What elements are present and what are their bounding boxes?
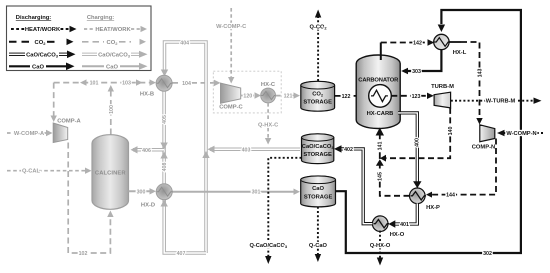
svg-text:144: 144 bbox=[446, 193, 455, 199]
svg-text:101: 101 bbox=[90, 81, 99, 87]
svg-text:CaO/CaCO3: CaO/CaCO3 bbox=[98, 52, 131, 58]
svg-text:HX-O: HX-O bbox=[390, 232, 405, 238]
wire 120 gray CO2 dashed bbox=[241, 92, 261, 99]
wire 143 black CO2 dashed HX-L to COMP-N bbox=[449, 42, 483, 125]
heat exchanger HX-C bbox=[261, 82, 276, 103]
svg-text:401: 401 bbox=[400, 222, 409, 228]
svg-text:CO2: CO2 bbox=[35, 40, 47, 46]
wire 402 black CaO/CaCO3 double HX-O to storage bbox=[334, 145, 372, 224]
svg-text:Charging:: Charging: bbox=[87, 15, 114, 21]
CaO storage tank bbox=[301, 176, 336, 207]
wire 103 gray CO2 dashed into HX-B bbox=[111, 79, 156, 86]
svg-text:301: 301 bbox=[252, 190, 261, 196]
svg-text:145: 145 bbox=[378, 172, 384, 181]
wire Q-CO2 black heat dotted bbox=[310, 10, 328, 82]
svg-text:CALCINER: CALCINER bbox=[95, 170, 126, 176]
wire 405 gray CaO/CaCO3 double HX-B down bbox=[160, 91, 168, 150]
svg-text:STORAGE: STORAGE bbox=[303, 152, 332, 158]
legend charging CaO arrow bbox=[82, 63, 148, 71]
svg-text:Q-CaO: Q-CaO bbox=[309, 243, 328, 249]
wire Q-CaO black heat dotted bbox=[309, 207, 328, 262]
legend charging CO2 arrow bbox=[82, 39, 146, 46]
wire 141 black CO2 dashed into carbonator bottom bbox=[376, 128, 384, 159]
svg-text:102: 102 bbox=[79, 251, 88, 257]
svg-text:HX-C: HX-C bbox=[261, 82, 276, 88]
svg-text:Q-CO2: Q-CO2 bbox=[310, 25, 328, 31]
svg-text:HX-L: HX-L bbox=[453, 50, 467, 56]
CaO/CaCO3 storage tank bbox=[302, 134, 334, 164]
wire 142 black CO2 carbonator top to HX-L bbox=[381, 39, 435, 60]
wire 144 black CO2 dashed COMP-N to HX-P bbox=[426, 139, 496, 199]
wire 140 black CO2 dashed TURB-M down to junction bbox=[380, 108, 454, 162]
heat exchanger HX-D bbox=[141, 184, 173, 209]
svg-text:STORAGE: STORAGE bbox=[304, 195, 333, 201]
svg-text:HX-CARB: HX-CARB bbox=[367, 111, 394, 117]
svg-text:406: 406 bbox=[142, 148, 151, 154]
svg-text:404: 404 bbox=[180, 40, 189, 46]
svg-text:CaO: CaO bbox=[312, 186, 324, 192]
svg-text:103: 103 bbox=[122, 81, 131, 87]
svg-text:Q-HX-C: Q-HX-C bbox=[258, 123, 278, 129]
svg-text:CO2: CO2 bbox=[107, 40, 119, 46]
legend discharging CO2 arrow bbox=[9, 39, 74, 46]
svg-text:143: 143 bbox=[478, 69, 484, 78]
wire 101 gray CO2 dashed bbox=[51, 79, 111, 122]
svg-text:402: 402 bbox=[344, 147, 353, 153]
svg-text:W-COMP-C: W-COMP-C bbox=[216, 24, 246, 30]
svg-text:COMP-A: COMP-A bbox=[57, 119, 81, 125]
svg-text:CaO/CaCO3: CaO/CaCO3 bbox=[302, 144, 334, 150]
wire 406 gray CaO/CaCO3 double into calciner bbox=[131, 146, 165, 154]
wire 408 gray CaO/CaCO3 double HX-D up bbox=[160, 150, 168, 184]
svg-text:COMP-N: COMP-N bbox=[472, 145, 496, 151]
wire W-TURB-M black work dotted bbox=[451, 98, 542, 105]
svg-text:W-COMP-N: W-COMP-N bbox=[506, 131, 536, 137]
svg-text:CO2: CO2 bbox=[312, 91, 324, 97]
wire 102 gray CO2 dashed COMP-A to calciner bottom bbox=[68, 143, 113, 258]
svg-text:W-COMP-A: W-COMP-A bbox=[14, 131, 44, 137]
heat exchanger HX-B bbox=[140, 75, 173, 97]
svg-text:Discharging:: Discharging: bbox=[16, 15, 51, 21]
wire 404 gray CaO/CaCO3 double: riser x206 and top run into HX-B bbox=[161, 40, 210, 253]
svg-text:122: 122 bbox=[342, 94, 351, 100]
svg-text:HX-D: HX-D bbox=[141, 202, 155, 208]
legend charging CaO/CaCO3 arrow bbox=[82, 51, 148, 59]
wire 403 gray CaO/CaCO3 double from CaO/CaCO3 storage bbox=[208, 146, 301, 154]
svg-text:W-TURB-M: W-TURB-M bbox=[486, 99, 516, 105]
wire 300 gray CaO solid calciner to HX-D bbox=[129, 188, 157, 195]
legend box bbox=[7, 6, 152, 71]
svg-text:Q-CaO/CaCO3: Q-CaO/CaCO3 bbox=[249, 243, 287, 249]
wire 400 black CaO/CaCO3 double carbonator to HX-P bbox=[398, 113, 422, 188]
svg-text:120: 120 bbox=[243, 94, 252, 100]
heat exchanger HX-P bbox=[410, 188, 441, 211]
legend charging HEAT/WORK arrow bbox=[84, 26, 147, 33]
svg-text:407: 407 bbox=[177, 251, 186, 257]
compressor COMP-N bbox=[472, 125, 496, 151]
wire 407 gray CaO/CaCO3 double bottom loop into HX-D bbox=[161, 199, 207, 257]
wire 100 gray CO2 dashed from calciner top bbox=[108, 85, 115, 135]
wire Q-HX-O black heat dotted bbox=[370, 231, 391, 266]
legend discharging CaO/CaCO3 arrow bbox=[9, 51, 76, 59]
svg-text:302: 302 bbox=[483, 251, 492, 257]
heat exchanger HX-O bbox=[372, 216, 404, 238]
legend discharging HEAT/WORK arrow bbox=[11, 26, 77, 33]
svg-text:403: 403 bbox=[242, 147, 251, 153]
wire 123 black CO2 dashed to TURB-M bbox=[391, 93, 434, 100]
svg-text:CaO/CaCO3: CaO/CaCO3 bbox=[26, 52, 59, 58]
svg-text:HEAT/WORK: HEAT/WORK bbox=[25, 27, 61, 33]
wire 104 gray CO2 dashed HX-B to COMP-C bbox=[172, 80, 221, 87]
svg-text:CARBONATOR: CARBONATOR bbox=[358, 78, 399, 84]
svg-text:141: 141 bbox=[378, 142, 384, 151]
svg-text:140: 140 bbox=[448, 127, 454, 136]
svg-text:CaO: CaO bbox=[106, 64, 118, 70]
wire 303 black CaO solid HX-L to carbonator bbox=[401, 50, 441, 75]
wire W-COMP-N black work dotted bbox=[497, 130, 543, 137]
heat exchanger HX-CARB inside carbonator bbox=[367, 85, 394, 117]
svg-text:303: 303 bbox=[412, 69, 421, 75]
wire Q-HX-C gray heat dotted bbox=[258, 103, 278, 145]
svg-text:104: 104 bbox=[182, 81, 191, 87]
svg-text:123: 123 bbox=[412, 94, 421, 100]
svg-text:142: 142 bbox=[413, 41, 422, 47]
svg-text:400: 400 bbox=[415, 138, 421, 147]
wire W-COMP-A gray work dotted bbox=[7, 130, 53, 137]
legend discharging CaO arrow bbox=[9, 63, 75, 71]
svg-text:405: 405 bbox=[162, 115, 168, 124]
wire 401 black CaO/CaCO3 double HX-P to HX-O bbox=[388, 203, 417, 228]
svg-text:CaO: CaO bbox=[32, 64, 44, 70]
compressor COMP-A bbox=[53, 119, 81, 143]
wire 301 gray CaO solid HX-D to CaO storage bbox=[172, 189, 300, 196]
svg-text:408: 408 bbox=[162, 163, 168, 172]
wire 302 black CaO solid: CaO storage to top right to HX-L bbox=[336, 10, 521, 257]
svg-text:Q-CAL: Q-CAL bbox=[22, 169, 41, 175]
wire W-COMP-C gray work dotted bbox=[216, 8, 246, 84]
svg-text:100: 100 bbox=[109, 105, 115, 114]
svg-text:HX-P: HX-P bbox=[426, 205, 440, 211]
svg-text:HX-B: HX-B bbox=[140, 91, 154, 97]
dashed enclosure around COMP-C and HX-C bbox=[213, 71, 281, 113]
wire 121 gray CO2 dashed into CO2 storage bbox=[276, 92, 300, 99]
wire 145 black CO2 dashed HX-P to junction bbox=[376, 158, 410, 196]
heat exchanger HX-L bbox=[434, 34, 467, 56]
wire Q-CAL gray heat dotted bbox=[7, 168, 92, 175]
svg-text:HEAT/WORK: HEAT/WORK bbox=[95, 27, 131, 33]
CO2 storage tank bbox=[301, 81, 335, 111]
svg-text:STORAGE: STORAGE bbox=[303, 99, 332, 105]
compressor COMP-C bbox=[219, 83, 243, 110]
svg-text:121: 121 bbox=[284, 94, 293, 100]
svg-text:TURB-M: TURB-M bbox=[431, 84, 454, 90]
svg-text:300: 300 bbox=[137, 189, 146, 195]
svg-text:Q-HX-O: Q-HX-O bbox=[370, 243, 391, 249]
carbonator vessel bbox=[356, 55, 400, 129]
calciner bbox=[92, 135, 129, 210]
turbine TURB-M bbox=[431, 84, 454, 108]
wire 122 black CO2 dashed storage to carbonator bbox=[335, 93, 369, 100]
svg-text:COMP-C: COMP-C bbox=[219, 105, 243, 111]
wire Q-CaO/CaCO3 black heat dotted bbox=[249, 158, 301, 264]
